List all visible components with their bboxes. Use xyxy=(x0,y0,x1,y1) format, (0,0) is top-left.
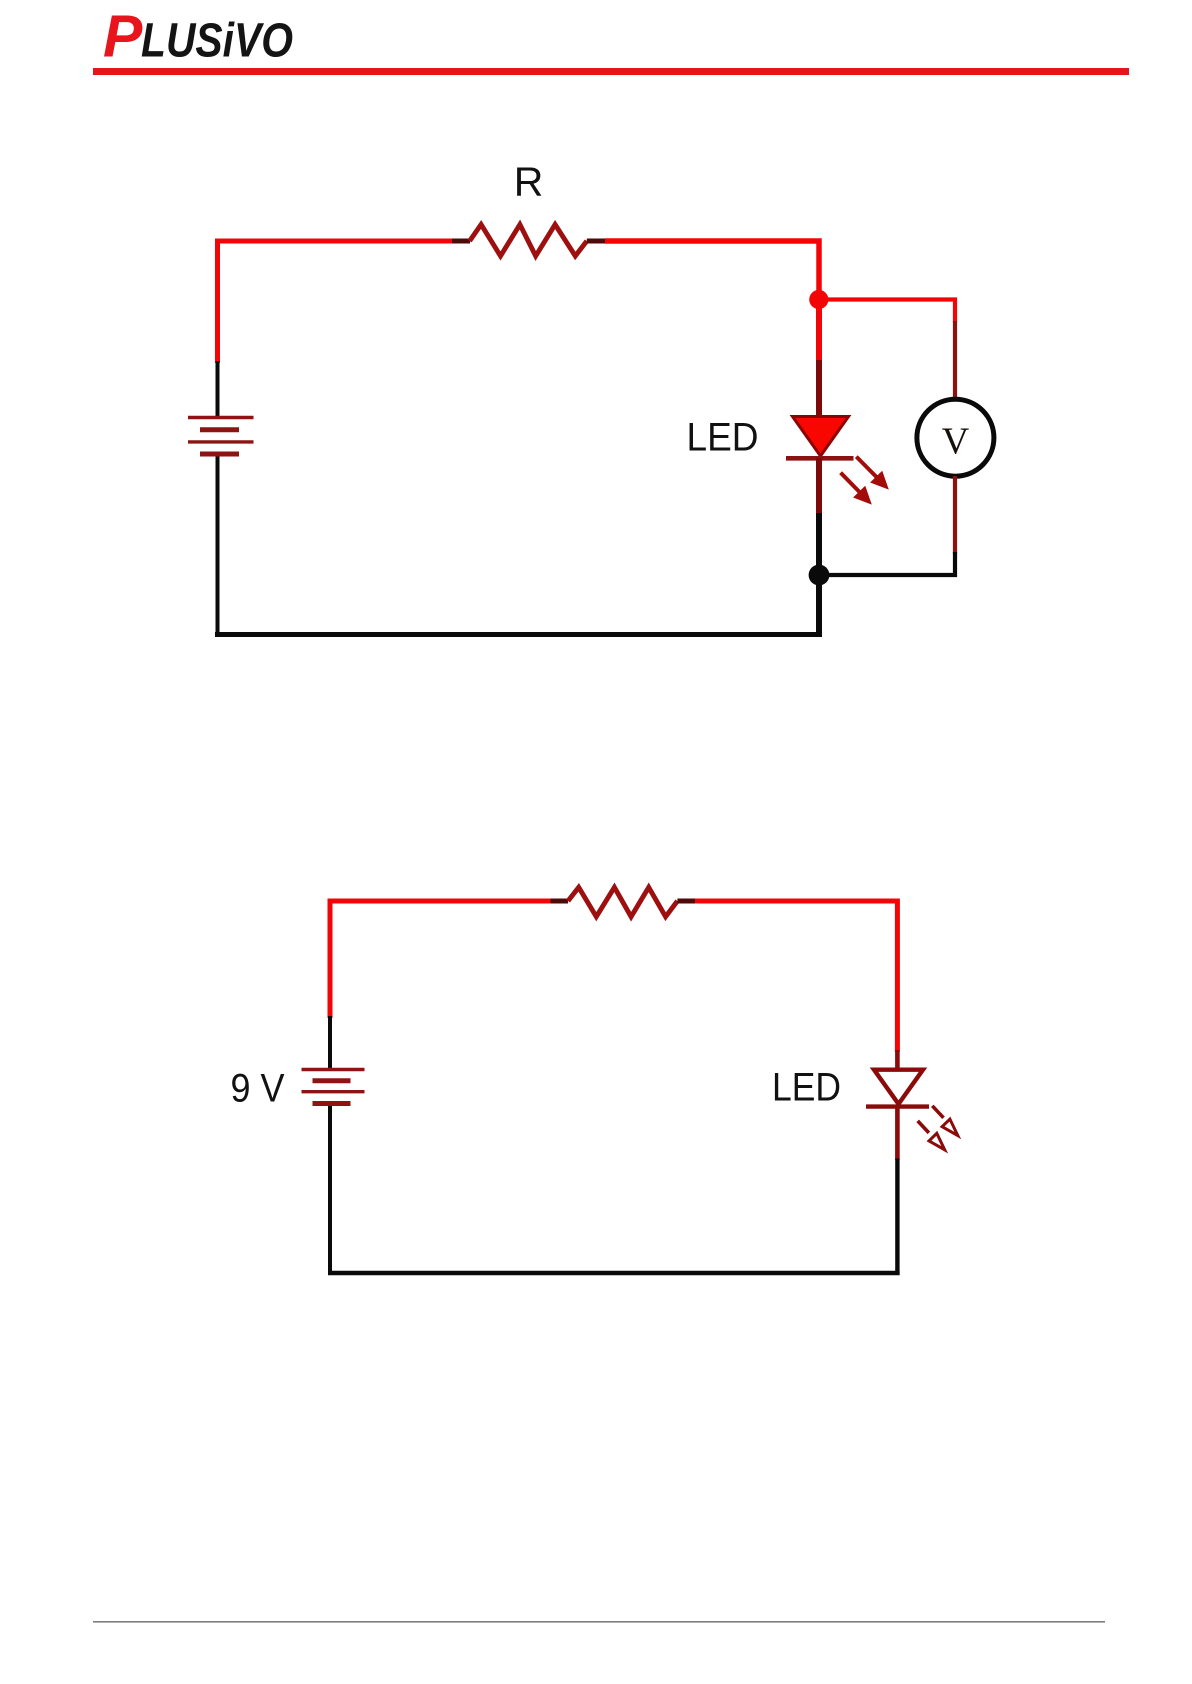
wire: top right red segment xyxy=(605,241,819,361)
svg-text:P: P xyxy=(103,4,143,70)
resistor R lead left xyxy=(452,239,470,244)
resistor R2 zigzag xyxy=(568,887,677,916)
svg-text:9 V: 9 V xyxy=(231,1067,285,1111)
resistor R lead right xyxy=(587,239,605,244)
resistor R2 lead right xyxy=(677,899,695,904)
svg-text:LED: LED xyxy=(772,1066,841,1110)
battery B2 top black lead xyxy=(328,1016,332,1070)
voltmeter M1 body xyxy=(917,399,994,476)
header rule xyxy=(93,68,1129,75)
LED D2 anode pin xyxy=(895,1050,900,1071)
LED D2 emission arrow 1 xyxy=(932,1106,958,1136)
battery B1 top black lead xyxy=(216,361,220,417)
LED D1 triangle (lit) xyxy=(793,417,849,457)
LED D2 emission arrow 2 xyxy=(918,1121,945,1150)
LED D1 anode pin xyxy=(816,360,822,419)
wire: LED branch black to bottom xyxy=(816,513,822,637)
battery B2 bottom black lead / left wire xyxy=(328,1106,332,1275)
battery B1 bottom black lead / left wire xyxy=(216,457,220,638)
wire: top right red segment xyxy=(695,901,897,1052)
node junction dot (black) xyxy=(809,565,830,586)
LED D2 cathode bar xyxy=(866,1104,929,1108)
resistor R2 lead left xyxy=(551,899,569,904)
LED D1 emission arrow 2 xyxy=(841,473,871,504)
wire: top left red segment xyxy=(330,901,551,1018)
battery B2 plates xyxy=(302,1070,365,1104)
battery B1 plates xyxy=(188,418,254,455)
node junction dot (red) xyxy=(809,290,828,309)
LED D1 cathode bar xyxy=(786,456,854,461)
voltmeter bottom pin xyxy=(953,476,957,554)
wire: voltmeter branch top red xyxy=(823,300,955,324)
svg-text:V: V xyxy=(942,421,970,463)
voltmeter top pin xyxy=(953,321,957,400)
svg-text:LED: LED xyxy=(687,416,759,460)
resistor R zigzag xyxy=(470,225,587,257)
wire: bottom black xyxy=(215,632,822,637)
wire: top left red segment xyxy=(218,241,453,363)
LED D2 triangle (open) xyxy=(874,1070,923,1104)
svg-text:R: R xyxy=(514,159,544,205)
wire: bottom black xyxy=(328,1271,900,1275)
wire: LED branch red (junction to LED pin) xyxy=(816,299,822,362)
svg-text:LUSiVO: LUSiVO xyxy=(141,15,293,68)
footer rule xyxy=(93,1621,1105,1623)
wire: voltmeter branch bottom black xyxy=(823,552,955,575)
wire: right black to bottom xyxy=(895,1159,899,1276)
logo PLUSIVO xyxy=(103,4,293,70)
LED D1 emission arrow 1 xyxy=(856,457,888,489)
LED D1 cathode pin xyxy=(816,458,822,515)
LED D2 cathode pin xyxy=(895,1106,900,1160)
